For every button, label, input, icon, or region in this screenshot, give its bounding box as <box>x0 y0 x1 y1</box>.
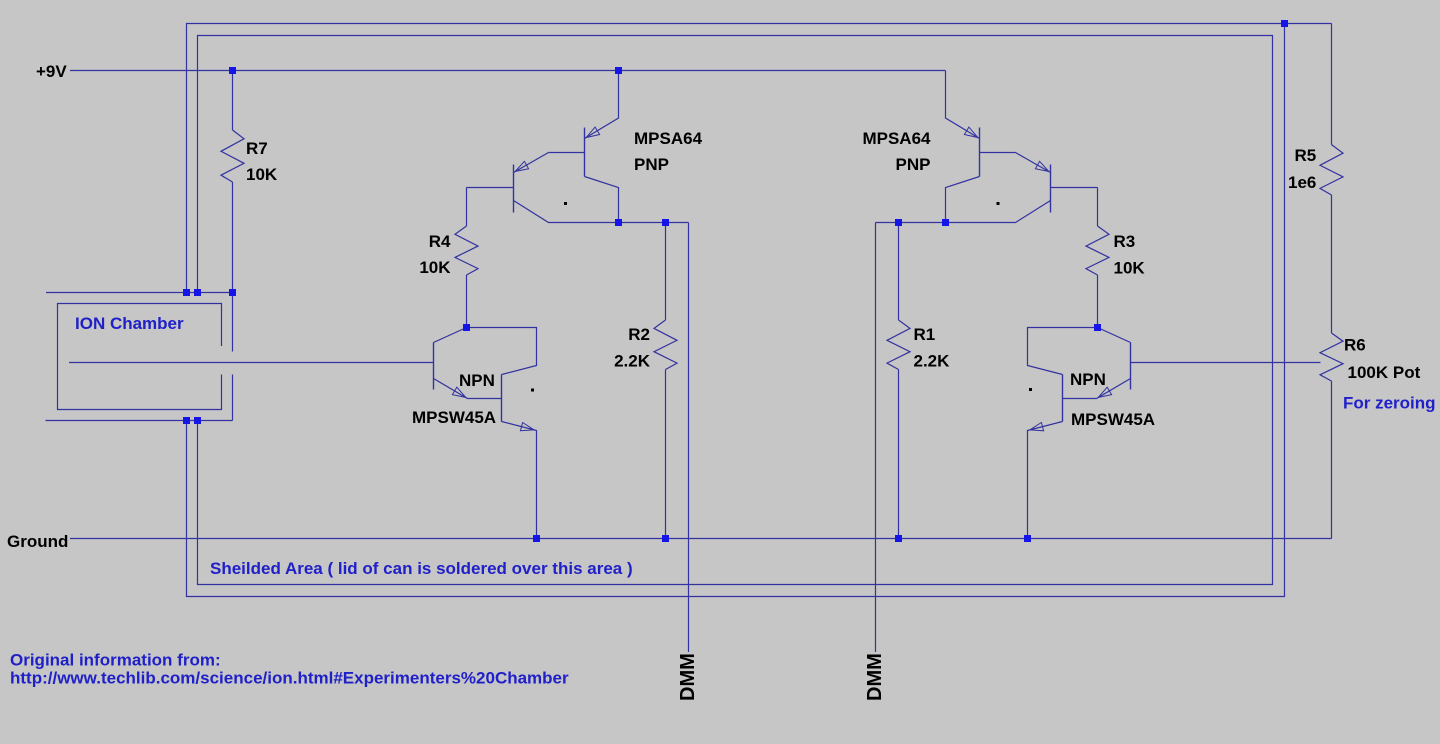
svg-text:R7: R7 <box>246 139 268 158</box>
svg-text:2.2K: 2.2K <box>614 352 651 371</box>
svg-text:For zeroing: For zeroing <box>1343 394 1436 413</box>
svg-text:PNP: PNP <box>896 155 931 174</box>
svg-text:MPSW45A: MPSW45A <box>412 408 496 427</box>
svg-text:DMM: DMM <box>864 653 886 701</box>
svg-text:NPN: NPN <box>1070 370 1106 389</box>
svg-text:R5: R5 <box>1295 146 1317 165</box>
svg-text:http://www.techlib.com/science: http://www.techlib.com/science/ion.html#… <box>10 669 569 688</box>
svg-text:Sheilded Area ( lid of can is: Sheilded Area ( lid of can is soldered o… <box>210 559 633 578</box>
svg-text:Ground: Ground <box>7 532 68 551</box>
svg-text:R2: R2 <box>628 325 650 344</box>
svg-text:R4: R4 <box>429 232 451 251</box>
svg-text:R3: R3 <box>1114 232 1136 251</box>
svg-text:R6: R6 <box>1344 336 1366 355</box>
svg-text:PNP: PNP <box>634 155 669 174</box>
svg-text:MPSW45A: MPSW45A <box>1071 410 1155 429</box>
svg-text:1e6: 1e6 <box>1288 173 1316 192</box>
svg-text:+9V: +9V <box>36 62 67 81</box>
svg-text:MPSA64: MPSA64 <box>862 129 931 148</box>
svg-text:DMM: DMM <box>677 653 699 701</box>
svg-text:ION Chamber: ION Chamber <box>75 314 184 333</box>
svg-text:MPSA64: MPSA64 <box>634 129 703 148</box>
svg-text:10K: 10K <box>246 165 278 184</box>
svg-text:10K: 10K <box>1114 259 1146 278</box>
svg-text:R1: R1 <box>914 325 936 344</box>
svg-text:Original information from:: Original information from: <box>10 651 221 670</box>
svg-text:NPN: NPN <box>459 371 495 390</box>
svg-text:10K: 10K <box>419 258 451 277</box>
svg-text:2.2K: 2.2K <box>914 352 951 371</box>
svg-text:100K Pot: 100K Pot <box>1348 363 1421 382</box>
